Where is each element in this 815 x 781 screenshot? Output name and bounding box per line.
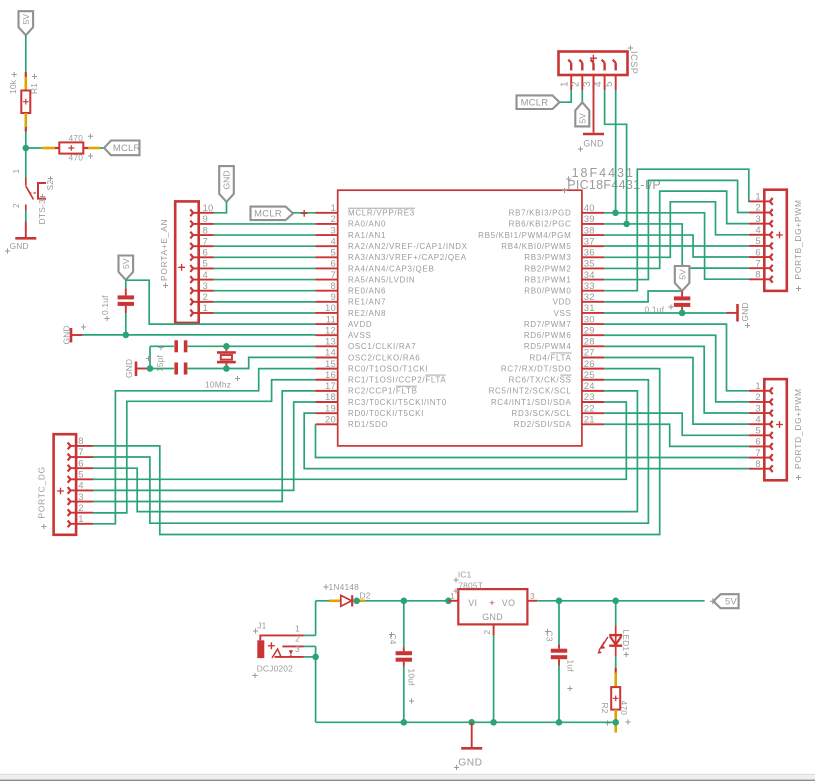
svg-text:6: 6 [755,437,760,448]
window scrollbar strip [0,774,815,781]
supply +5V flag (right) [675,266,690,291]
supply +5V flag (left) [119,256,134,280]
svg-text:RD1/SDO: RD1/SDO [348,420,388,429]
svg-text:4: 4 [755,414,760,425]
svg-text:23: 23 [584,392,595,403]
junction GND [468,719,475,726]
junction crystal bottom [223,365,230,372]
svg-text:30: 30 [584,314,595,325]
ICSP pin1 wire to MCLR [560,90,572,102]
wire VDD to 5V [604,291,682,302]
svg-text:LED1: LED1 [621,630,631,652]
svg-text:20: 20 [325,414,336,425]
svg-text:5: 5 [755,426,760,437]
pin 14 stub [316,356,338,358]
svg-text:3: 3 [530,591,535,601]
PORTC pin 2 [76,512,93,514]
svg-text:GND: GND [10,241,29,251]
pin 37 stub [582,245,604,247]
svg-text:4: 4 [331,236,336,247]
wire PORTA to IC row 9 [214,301,316,303]
wire RC0 net [93,369,316,524]
IC1 pin3 stub [527,600,537,602]
svg-text:GND: GND [222,170,232,189]
wire RC4 net [93,402,626,479]
wire RB5 net [604,235,749,257]
pin 30 stub [582,323,604,325]
pin 19 stub [316,412,338,414]
svg-text:GND: GND [740,302,750,321]
svg-text:C3: C3 [545,631,555,642]
pin 29 stub [582,334,604,336]
svg-text:15: 15 [325,359,336,370]
junction RB7/ICSP5 [612,210,619,217]
PORTB pin 8 [749,278,764,280]
svg-text:10: 10 [325,303,336,314]
svg-text:37: 37 [584,236,595,247]
svg-text:13: 13 [325,337,336,348]
wire ICSP pin4 to RB6 [605,90,627,224]
junction at D2 cathode [353,598,360,605]
svg-text:5: 5 [203,259,208,270]
J1 wires [304,634,316,636]
wire RC3 net [93,402,316,490]
wire 0.1uf to AVSS rail [125,313,127,335]
wire gnd to lower cap [150,368,174,370]
svg-text:36: 36 [584,248,595,259]
capacitor 0.1uf (right) [681,291,683,296]
PORTB pin 5 [749,245,764,247]
svg-text:17: 17 [325,381,336,392]
svg-text:3: 3 [295,644,300,654]
svg-text:8: 8 [203,225,208,236]
svg-text:7805T: 7805T [458,580,483,590]
diode D2 1N4148 [329,599,341,602]
PORTB pin 1 [749,200,764,202]
wire RD7 net [604,324,749,391]
svg-text:ICSP: ICSP [629,51,639,74]
wire RD2 net [604,424,749,446]
PORTB pin 6 [749,256,764,258]
svg-text:25: 25 [584,370,595,381]
wire D2 to IC1 [365,600,448,602]
svg-text:MCLR: MCLR [521,96,549,107]
svg-text:2: 2 [755,392,760,403]
svg-text:2: 2 [11,203,21,208]
junction IC1 pin2 [490,719,497,726]
svg-text:5V: 5V [21,14,31,25]
svg-text:27: 27 [584,348,595,359]
pin 2 stub [316,223,338,225]
svg-text:6: 6 [331,259,336,270]
wire PORTA to IC row 7 [214,279,316,281]
svg-text:7: 7 [203,236,208,247]
svg-text:2: 2 [78,503,83,514]
svg-text:AVDD: AVDD [348,320,372,329]
pin 10 stub [316,312,338,314]
net flag MCLR (top left) [104,141,139,156]
svg-text:RA1/AN1: RA1/AN1 [348,231,386,240]
svg-text:9: 9 [331,292,336,303]
svg-text:R1: R1 [29,83,39,94]
svg-text:33: 33 [584,281,595,292]
svg-text:1: 1 [755,381,760,392]
pin 33 stub [582,290,604,292]
junction C3 top [556,598,563,605]
svg-text:14: 14 [325,348,336,359]
svg-text:RB1/PWM1: RB1/PWM1 [524,275,571,284]
PORTB pin 4 [749,234,764,236]
junction LED top [612,598,619,605]
svg-text:28: 28 [584,337,595,348]
wire MCLR flag to IC pin1 [293,212,316,214]
svg-text:8: 8 [755,459,760,470]
pin 7 stub [316,279,338,281]
svg-text:RA4/AN4/CAP3/QEB: RA4/AN4/CAP3/QEB [348,264,434,273]
svg-text:OSC1/CLKI/RA7: OSC1/CLKI/RA7 [348,342,416,351]
svg-text:PORTD_DG+PWM: PORTD_DG+PWM [793,388,803,469]
svg-text:4: 4 [203,270,208,281]
svg-text:32: 32 [584,292,595,303]
PORTA pin 1 [199,312,214,314]
svg-text:D2: D2 [360,591,371,601]
PORTD pin 6 [749,445,764,447]
wire lower cap to OSC2 (IC pin14) [188,357,316,368]
svg-text:0.1uf: 0.1uf [645,305,665,315]
svg-text:RB7/KBI3/PGD: RB7/KBI3/PGD [509,209,572,218]
pin 25 stub [582,379,604,381]
svg-text:10Mhz: 10Mhz [205,380,231,390]
svg-text:2: 2 [295,634,300,644]
svg-text:7: 7 [755,258,760,269]
svg-text:5V: 5V [725,595,738,606]
pin 21 stub [582,423,604,425]
svg-text:3: 3 [582,81,593,87]
wire PORTA to IC row 5 [214,256,316,258]
C4 plates [396,651,412,655]
svg-text:18: 18 [325,392,336,403]
wire PORTA to IC row 6 [214,267,316,269]
wire VSS rail [604,312,726,314]
svg-text:24: 24 [584,381,595,392]
pin 27 stub [582,356,604,358]
PORTA pin 8 [199,234,214,236]
svg-text:10k: 10k [8,79,18,94]
svg-text:2: 2 [203,292,208,303]
svg-text:RB3/PWM3: RB3/PWM3 [524,253,571,262]
wire R1 to node [25,132,27,149]
svg-text:OSC2/CLKO/RA6: OSC2/CLKO/RA6 [348,353,420,362]
wire GND to AVSS (IC pin12) [83,334,316,336]
PORTC pin 8 [76,445,93,447]
ICSP pin 5 [615,75,617,90]
PORTC pin 1 [76,523,93,525]
R2 body [611,687,620,710]
wire IC1 VO to 5V flag [537,600,704,602]
wire PORTA to IC row 8 [214,290,316,292]
svg-text:RD3/SCK/SCL: RD3/SCK/SCL [512,409,572,418]
svg-text:6: 6 [755,247,760,258]
wire RD1 net [316,424,750,457]
supply GND flag (above PORTA) [219,166,234,202]
svg-text:RD4/FLTA: RD4/FLTA [529,353,571,362]
PORTB origin cross [776,232,783,239]
svg-text:7: 7 [331,270,336,281]
pin 34 stub [582,279,604,281]
IC1 pin2 to gnd rail [493,624,495,635]
svg-text:16: 16 [325,370,336,381]
capacitor 15pf (upper) [174,340,178,352]
svg-text:2: 2 [331,214,336,225]
junction C4 top [401,598,408,605]
svg-text:5: 5 [755,236,760,247]
svg-text:RC1/T1OSI/CCP2/FLTA: RC1/T1OSI/CCP2/FLTA [348,376,446,385]
svg-text:1: 1 [295,624,300,634]
svg-text:12: 12 [325,325,336,336]
supply +5V flag (ICSP) [575,102,589,126]
svg-text:15pf: 15pf [155,354,165,372]
pin 1 stub [316,212,338,214]
svg-text:22: 22 [584,403,595,414]
svg-text:10uf: 10uf [407,669,417,687]
pin 36 stub [582,256,604,258]
PORTA pin 4 [199,279,214,281]
crystal section: OSC1 line [150,345,174,347]
wire S2 to GND [25,210,27,222]
wire cap gnd vertical [149,346,151,368]
wire RD3 net [604,413,749,435]
PORTC pin 6 [76,467,93,469]
J1 switch cross [268,642,275,649]
ICSP pin2 wire to 5V [581,90,583,102]
resistor 470 (MCLR pullup) leads [42,147,55,150]
pin 40 stub [582,212,604,214]
svg-text:9: 9 [203,214,208,225]
svg-text:3: 3 [755,214,760,225]
svg-text:RD5/PWM4: RD5/PWM4 [524,342,572,351]
svg-text:MCLR/VPP/RE3: MCLR/VPP/RE3 [348,209,415,218]
PORTA pin 7 [199,245,214,247]
capacitor C4 10uf [403,601,405,647]
svg-text:RC5/INT2/SCK/SCL: RC5/INT2/SCK/SCL [489,387,572,396]
svg-text:2: 2 [755,203,760,214]
svg-text:35: 35 [584,259,595,270]
pin 18 stub [316,401,338,403]
PORTB pin 7 [749,267,764,269]
svg-text:+: + [489,598,495,609]
junction 0.1uf/AVSS [123,332,130,339]
svg-text:1: 1 [331,203,336,214]
svg-text:RC2/CCP1/FLTB: RC2/CCP1/FLTB [348,387,418,396]
svg-text:GND: GND [482,612,503,622]
svg-text:RA5/AN5/LVDIN: RA5/AN5/LVDIN [348,275,415,284]
svg-text:40: 40 [584,203,595,214]
svg-text:470: 470 [69,133,84,143]
svg-text:26: 26 [584,359,595,370]
svg-text:RE1/AN7: RE1/AN7 [348,298,386,307]
wire ICSP pin5 to RB7 [615,90,617,213]
pin 12 stub [316,334,338,336]
svg-text:PORTA+E_AN: PORTA+E_AN [159,219,169,281]
svg-text:RE0/AN6: RE0/AN6 [348,287,386,296]
ICSP pin 2 [581,75,583,90]
svg-text:GND: GND [62,325,72,344]
junction at IC1 VI [445,598,452,605]
svg-text:29: 29 [584,325,595,336]
svg-text:1: 1 [78,514,83,525]
svg-text:5: 5 [78,469,83,480]
svg-text:VDD: VDD [553,298,572,307]
svg-text:J1: J1 [257,621,266,631]
svg-text:0.1uf: 0.1uf [100,295,110,315]
svg-text:1: 1 [203,303,208,314]
junction gnd/caps [147,365,154,372]
junction C3 bottom [556,719,563,726]
svg-text:4: 4 [755,225,760,236]
junction VSS/0.1uf [679,310,686,317]
PORTD pin 3 [749,412,764,414]
PORTA pin 10 [199,212,214,214]
svg-text:5V: 5V [578,113,588,124]
PORTB pin 3 [749,223,764,225]
wire RB3 net [604,202,749,258]
wire RB1 net [604,180,749,279]
svg-text:RB6/KBI2/PGC: RB6/KBI2/PGC [509,220,572,229]
svg-text:IC1: IC1 [458,570,472,580]
svg-text:RB4/KBI0/PWM5: RB4/KBI0/PWM5 [501,242,571,251]
svg-text:DCJ0202: DCJ0202 [257,663,293,673]
svg-text:RA0/AN0: RA0/AN0 [348,220,386,229]
pin 28 stub [582,345,604,347]
svg-text:5V: 5V [121,258,131,269]
resistor R1 10k leads [25,72,27,77]
ground symbol (bottom) [471,722,473,748]
svg-text:AVSS: AVSS [348,331,371,340]
svg-text:470: 470 [69,153,84,163]
ICSP pin 1 [570,75,572,90]
wire RB0 net [604,169,749,291]
pin 39 stub [582,223,604,225]
net flag MCLR (ICSP) [517,95,560,109]
pin 6 stub [316,267,338,269]
5V flag origin cross [710,598,716,604]
svg-text:8: 8 [78,436,83,447]
wire 470 to MCLR flag [100,147,104,149]
svg-text:S2: S2 [45,180,55,191]
pin 35 stub [582,267,604,269]
R1 lower lead [24,113,27,127]
svg-text:PORTB_DG+PWM: PORTB_DG+PWM [793,199,803,279]
wire RD4 net [604,357,749,424]
svg-text:21: 21 [584,414,595,425]
wire RD6 net [604,335,749,402]
net flag MCLR (at IC pin 1) [251,207,294,221]
connector SV-PORTA+E_AN body [175,201,199,323]
470 right lead [83,147,88,149]
svg-text:2: 2 [571,81,582,87]
svg-text:1N4148: 1N4148 [329,582,360,592]
PORTA pin 5 [199,267,214,269]
PORTD pin 5 [749,434,764,436]
wire PORTA to IC row 4 [214,245,316,247]
svg-text:5: 5 [604,81,615,87]
pin 5 stub [316,256,338,258]
resistor R2 470 [615,656,617,668]
svg-text:RB0/PWM0: RB0/PWM0 [524,287,571,296]
svg-text:3: 3 [331,225,336,236]
junction node MCLR-divider [23,145,30,152]
svg-text:RC3/T0CKI/T5CKI/INT0: RC3/T0CKI/T5CKI/INT0 [348,398,447,407]
svg-text:4: 4 [593,81,604,87]
wire RC5 net [93,391,637,512]
pin 26 stub [582,368,604,370]
ground symbol (crystal) [136,368,150,370]
pin 8 stub [316,290,338,292]
svg-text:RB2/PWM2: RB2/PWM2 [524,264,571,273]
wire RC2 net [93,391,316,502]
svg-text:RC0/T1OSO/T1CKI: RC0/T1OSO/T1CKI [348,364,428,373]
capacitor C1 0.1uf leads [125,280,127,288]
PORTC pin 3 [76,501,93,503]
wire RB6 net [604,224,749,268]
connector SV-PORTC_DG body [54,434,77,535]
resistor R1 body [21,91,30,114]
pin 4 stub [316,245,338,247]
PORTC pin 5 [76,478,93,480]
svg-text:5V: 5V [677,269,687,280]
svg-text:RC4/INT1/SDI/SDA: RC4/INT1/SDI/SDA [491,398,572,407]
junction C4 bottom [401,719,408,726]
svg-text:3: 3 [755,403,760,414]
svg-text:2: 2 [482,630,492,635]
svg-text:1: 1 [560,81,571,87]
wire PORTA to IC row 10 [214,312,316,314]
wire J1 to bottom rail [315,657,317,722]
svg-text:MCLR: MCLR [254,208,282,219]
pin 3 stub [316,234,338,236]
wire RB4 net [604,245,749,247]
PORTC origin cross [57,488,64,495]
capacitor 15pf (lower) [174,363,178,375]
wire RC1 net [93,380,316,513]
wire RB7 net [604,213,749,279]
connector SV-PORTD_DG+PWM body [764,379,787,480]
pin 23 stub [582,401,604,403]
junction RB6/ICSP4 [623,221,630,228]
PORTD pin 7 [749,457,764,459]
pin 11 stub [316,323,338,325]
svg-text:MCLR: MCLR [113,142,141,153]
svg-text:RC7/RX/DT/SDO: RC7/RX/DT/SDO [501,364,572,373]
overlines on pin names [348,208,572,386]
PORTB pin 2 [749,212,764,214]
red cross marker on MCLR wire [301,210,308,217]
ground symbol (below S2) [25,222,27,239]
svg-text:7: 7 [78,447,83,458]
pin 32 stub [582,301,604,303]
svg-text:11: 11 [326,314,336,325]
ICSP origin cross [590,55,597,62]
svg-text:RB5/KBI1/PWM4/PGM: RB5/KBI1/PWM4/PGM [478,231,571,240]
svg-text:6: 6 [78,458,83,469]
svg-text:39: 39 [584,214,595,225]
R2 lower lead [614,710,617,733]
svg-text:1: 1 [11,169,21,174]
capacitor 0.1uf right plates [674,296,690,300]
pin 24 stub [582,390,604,392]
regulator IC1 7805T [448,600,458,602]
wire PORTA to IC row 3 [214,234,316,236]
